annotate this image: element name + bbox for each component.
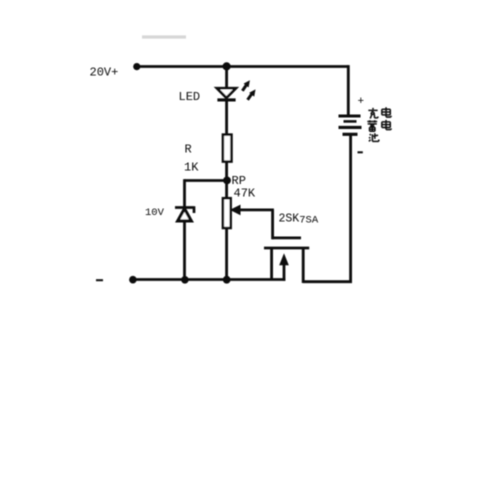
LED emission arrow 2 xyxy=(248,94,252,100)
char xu xyxy=(367,120,377,131)
transistor Q1 source leg xyxy=(270,248,273,279)
node bottom rail left endpoint xyxy=(129,276,137,284)
diode D1 zener cathode bar xyxy=(175,206,194,213)
label battery chinese text xyxy=(367,107,391,141)
potentiometer RP 47K body xyxy=(223,198,231,228)
wire zener top lead xyxy=(183,179,186,207)
battery BT1 plate short xyxy=(344,120,357,123)
transistor Q1 gate bar xyxy=(272,236,301,239)
battery BT1 plate short bottom xyxy=(343,133,358,136)
char chi xyxy=(369,133,379,141)
wire LED to resistor xyxy=(225,100,228,135)
label - supply negative xyxy=(96,279,103,281)
node junction top rail / LED column xyxy=(223,62,231,70)
wire MOSFET drain leg xyxy=(302,248,305,284)
wire resistor to pot xyxy=(225,162,228,199)
char dian 2 xyxy=(382,120,391,130)
node pot bottom on rail xyxy=(223,276,231,284)
LED emission arrow 1 xyxy=(242,85,246,91)
char chong xyxy=(368,108,378,119)
wire top rail xyxy=(137,65,349,68)
wire drain bottom horizontal xyxy=(303,280,352,283)
diode LED cathode bar xyxy=(217,98,235,101)
wire LED top xyxy=(225,67,228,89)
svg-text:2SK7SA: 2SK7SA xyxy=(279,212,319,226)
diode D1 zener triangle xyxy=(178,209,192,221)
wire bottom rail xyxy=(133,278,286,281)
battery BT1 plate long xyxy=(339,126,362,129)
wire battery bottom lead xyxy=(349,136,352,282)
battery BT1 plate long top xyxy=(339,115,361,118)
svg-text:1K: 1K xyxy=(184,160,199,174)
transistor Q1 2SK7SA channel line xyxy=(264,247,309,250)
diode LED triangle xyxy=(217,88,236,98)
node zener on rail xyxy=(181,276,189,284)
node junction R / RP / zener branch xyxy=(223,177,231,185)
svg-text:20V+: 20V+ xyxy=(90,66,119,80)
wire gate lead horizontal to pot wiper xyxy=(236,208,274,211)
wire pot bottom lead xyxy=(225,228,228,280)
svg-text:+: + xyxy=(358,96,365,108)
transistor Q1 body arrow xyxy=(283,262,286,281)
smudge artifact top xyxy=(142,35,186,38)
wire battery top lead xyxy=(347,65,350,115)
resistor R 1K body xyxy=(223,135,232,162)
svg-text:LED: LED xyxy=(179,90,201,104)
svg-text:47K: 47K xyxy=(234,186,256,200)
wire junction to zener branch xyxy=(184,179,227,182)
svg-text:R: R xyxy=(185,142,192,156)
svg-text:10V: 10V xyxy=(145,207,165,219)
potentiometer RP wiper arrow xyxy=(230,205,241,216)
label - battery negative xyxy=(358,151,363,153)
char dian xyxy=(382,107,391,117)
node left endpoint of top rail xyxy=(133,63,140,70)
wire zener bottom lead xyxy=(183,221,186,280)
wire gate lead vertical xyxy=(271,210,274,239)
